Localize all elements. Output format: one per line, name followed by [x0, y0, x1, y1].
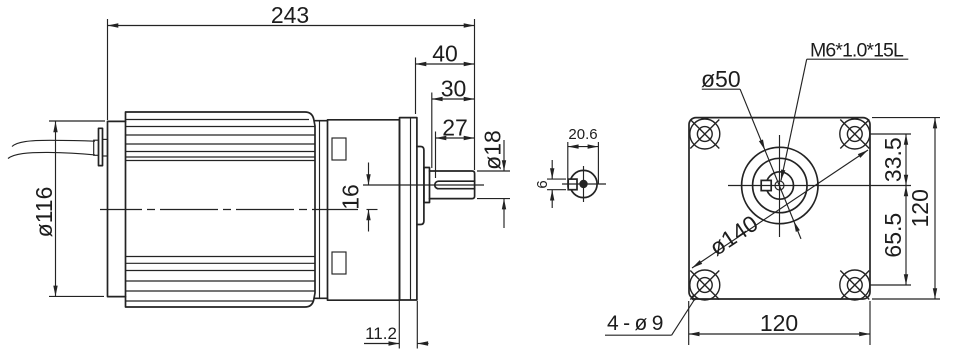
- M6 tap circle: [775, 181, 784, 190]
- boss crosshair: [728, 135, 911, 237]
- gearbox body: [328, 120, 400, 300]
- gland plate: [99, 128, 103, 165]
- svg-text:16: 16: [338, 184, 364, 210]
- svg-text:33.5: 33.5: [880, 137, 906, 182]
- dimension 120 right: [872, 118, 940, 299]
- dimension 16: [338, 163, 369, 232]
- shaft bore circle: [766, 172, 793, 199]
- svg-text:120: 120: [907, 189, 933, 227]
- adapter ring: [315, 121, 328, 299]
- keyway slot: [435, 181, 475, 189]
- dimension 30: [432, 76, 475, 169]
- svg-text:ø50: ø50: [701, 66, 741, 92]
- label M6 leader: [781, 40, 908, 181]
- bore keyway: [761, 180, 771, 190]
- dimension 6: [534, 160, 566, 208]
- svg-text:30: 30: [441, 76, 467, 102]
- bolt hole TR: [840, 119, 870, 149]
- shaft collar: [424, 168, 430, 203]
- motor centerline tick: [367, 209, 378, 211]
- dimension 33.5: [870, 134, 911, 186]
- section center dot: [579, 180, 587, 188]
- svg-text:11.2: 11.2: [365, 324, 397, 343]
- motor centerline: [100, 209, 358, 211]
- motor ribbed body: [126, 112, 316, 307]
- boss circle o50: [742, 147, 818, 223]
- key profile: [568, 179, 577, 190]
- gearbox bolt bottom: [332, 252, 346, 274]
- svg-text:20.6: 20.6: [568, 126, 597, 143]
- bolt hole TL: [690, 119, 720, 149]
- svg-text:65.5: 65.5: [880, 213, 906, 258]
- boss side: [417, 147, 424, 225]
- flange seam line: [410, 118, 412, 300]
- bolt hole BL: [690, 270, 720, 300]
- cable: [8, 140, 95, 158]
- svg-text:40: 40: [432, 41, 458, 67]
- register circle: [753, 158, 807, 212]
- dimension 243: [108, 2, 475, 170]
- svg-text:ø18: ø18: [480, 130, 506, 170]
- dimension o140: [692, 150, 868, 268]
- dimension 27: [436, 115, 475, 179]
- dimension 40: [416, 41, 475, 115]
- svg-text:27: 27: [442, 115, 468, 141]
- svg-text:6: 6: [534, 180, 551, 188]
- dimension 20.6: [568, 126, 599, 188]
- cable ferrule: [94, 140, 99, 155]
- gland block: [103, 139, 108, 156]
- motor end cap: [108, 121, 126, 296]
- svg-text:120: 120: [760, 310, 798, 336]
- label o50 leader: [701, 66, 801, 239]
- section crosshair: [562, 166, 606, 202]
- adapter seam: [319, 121, 321, 299]
- dimension o116: [31, 121, 105, 296]
- svg-text:4-ø9: 4-ø9: [607, 312, 668, 335]
- gearbox bolt top: [332, 138, 346, 160]
- label 4-o9 leader: [605, 296, 696, 336]
- flange plate side: [400, 118, 417, 300]
- svg-text:243: 243: [271, 2, 309, 28]
- shaft centerline: [363, 184, 484, 186]
- svg-text:ø116: ø116: [31, 187, 57, 238]
- bolt hole BR: [840, 270, 870, 300]
- dimension 120 bottom: [689, 301, 870, 345]
- key section circle: [570, 170, 597, 197]
- svg-text:M6*1.0*15L: M6*1.0*15L: [810, 40, 904, 62]
- dimension 11.2: [364, 301, 429, 349]
- dimension 65.5: [870, 186, 911, 286]
- dimension o18: [477, 130, 510, 228]
- output shaft: [430, 171, 475, 199]
- flange square: [689, 118, 870, 299]
